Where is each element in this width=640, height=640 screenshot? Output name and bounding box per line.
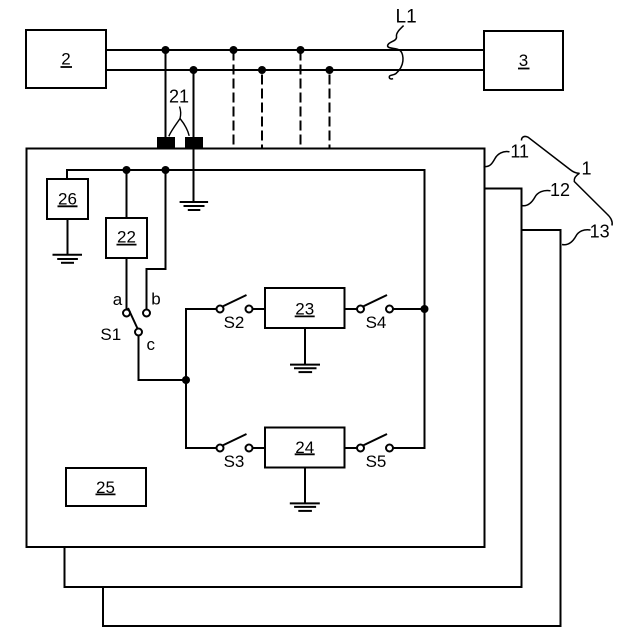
svg-text:21: 21 <box>169 87 189 107</box>
connector terminal block left 21 <box>157 137 175 149</box>
svg-text:13: 13 <box>590 221 610 241</box>
housing box 12 <box>65 189 522 588</box>
node dot top bus 3 <box>297 46 305 54</box>
leader fork 21 right arm <box>180 119 189 136</box>
wire to contact b <box>147 170 166 310</box>
wire right rail lower <box>393 309 425 448</box>
box 23 <box>265 288 345 328</box>
box 24 <box>265 428 345 468</box>
leader squiggle L1 <box>388 26 404 79</box>
leader fork 21 left arm <box>169 119 180 137</box>
wire dashed tap 4 <box>329 75 331 149</box>
svg-text:S2: S2 <box>224 313 245 332</box>
wire tap right solid <box>193 70 195 137</box>
box 26 <box>47 179 88 219</box>
contact S3 left <box>217 445 224 452</box>
node dot bottom bus 2 <box>258 66 266 74</box>
svg-text:c: c <box>146 335 155 354</box>
wire dashed tap 2 <box>261 75 263 149</box>
node dot top bus 1 <box>162 46 170 54</box>
node dot bottom bus 3 <box>326 66 334 74</box>
leader 11 <box>484 152 510 167</box>
node dot right rail <box>421 305 429 313</box>
wire box 24 to S5 <box>345 447 358 449</box>
node dot junction <box>182 376 190 384</box>
switch lever S4 <box>363 295 387 307</box>
node dot inner rail a <box>123 166 131 174</box>
ground below box 24 <box>290 468 320 511</box>
box 25 <box>66 468 146 506</box>
svg-text:S1: S1 <box>100 325 121 344</box>
wire inner top rail <box>67 170 425 309</box>
leader 13 <box>562 230 591 245</box>
wire box22 to contact a <box>126 258 128 310</box>
wire S3 to box 24 <box>253 447 266 449</box>
contact S5 right <box>386 445 393 452</box>
leader fork 21 stem <box>180 107 181 119</box>
contact c S1 <box>135 329 142 336</box>
box 3 <box>484 31 563 90</box>
svg-text:22: 22 <box>117 228 136 247</box>
connector terminal block right 21 <box>185 137 203 149</box>
housing box 11 <box>27 149 485 548</box>
contact b S1 <box>143 310 150 317</box>
brace 1 <box>521 136 612 225</box>
svg-text:L1: L1 <box>396 7 417 28</box>
contact S4 left <box>357 306 364 313</box>
svg-text:b: b <box>151 290 160 309</box>
box 2 <box>26 30 106 88</box>
svg-text:S4: S4 <box>366 313 387 332</box>
wire S2 to box 23 <box>253 308 266 310</box>
switch lever S3 <box>223 434 247 446</box>
ground below terminal 21 <box>180 149 209 210</box>
box 22 <box>106 218 147 258</box>
wire to box 22 <box>126 170 128 218</box>
wire contact c to junction <box>139 336 187 381</box>
switch lever S1 <box>128 308 138 329</box>
wire dashed tap 3 <box>300 51 302 149</box>
contact S2 left <box>217 306 224 313</box>
svg-text:S5: S5 <box>366 452 387 471</box>
node dot top bus 2 <box>230 46 238 54</box>
housing box 13 <box>103 230 561 626</box>
svg-text:a: a <box>113 290 123 309</box>
ground below box 26 <box>53 219 83 263</box>
switch lever S2 <box>223 295 247 307</box>
switch lever S5 <box>363 434 387 446</box>
svg-text:1: 1 <box>581 159 591 179</box>
leader 12 <box>522 190 551 205</box>
contact a S1 <box>123 310 130 317</box>
wire left rail <box>186 309 217 448</box>
wire box 23 to S4 <box>345 308 358 310</box>
wire tap left solid <box>165 50 167 137</box>
svg-text:3: 3 <box>519 51 528 70</box>
svg-text:12: 12 <box>550 180 570 200</box>
wire dashed tap 1 <box>233 51 235 149</box>
wire bus line top <box>106 49 484 51</box>
contact S5 left <box>357 445 364 452</box>
contact S2 right <box>246 306 253 313</box>
wire S4 to right rail <box>393 308 425 310</box>
svg-text:2: 2 <box>61 50 70 69</box>
svg-text:11: 11 <box>510 142 529 162</box>
ground below box 23 <box>290 328 320 372</box>
node dot inner rail b <box>162 166 170 174</box>
contact S3 right <box>246 445 253 452</box>
contact S4 right <box>386 306 393 313</box>
wire bus line bottom <box>106 69 484 71</box>
svg-text:S3: S3 <box>224 452 245 471</box>
node dot bottom bus 1 <box>190 66 198 74</box>
